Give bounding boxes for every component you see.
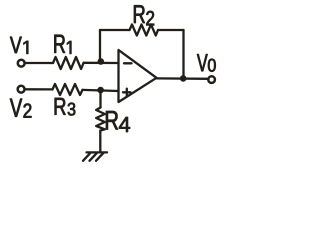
ground hatch 1: [83, 153, 91, 161]
wire top rail right segment: [158, 29, 184, 31]
wire junction up to top rail: [99, 30, 101, 62]
wire R3 to non-inverting input: [83, 90, 119, 91]
label R2 glyph R: [134, 5, 145, 23]
label R3 glyph R: [55, 98, 66, 115]
node V0 output terminal: [208, 76, 215, 83]
wire R4 to ground: [99, 131, 101, 153]
resistor R1: [53, 57, 84, 69]
op-amp minus sign (inverting input): [124, 62, 132, 64]
resistor R4: [96, 108, 105, 131]
label R2 glyph 2: [146, 11, 154, 25]
op-amp plus sign (non-inverting input): [123, 91, 131, 93]
label R4 glyph R: [106, 111, 118, 130]
resistor R2: [130, 25, 159, 36]
node junction non-inverting input: [97, 87, 104, 94]
label V2 glyph 2: [24, 104, 32, 118]
wire op-amp output to V0: [157, 77, 208, 80]
label V1 glyph V: [10, 37, 22, 53]
label V0 glyph 0: [208, 59, 216, 72]
label R3 glyph 3: [68, 103, 76, 116]
node V2 input terminal: [18, 86, 25, 93]
resistor R3: [53, 84, 83, 95]
label R1 glyph R: [54, 35, 65, 53]
ground hatch 2: [90, 153, 98, 161]
ground hatch 3: [96, 153, 104, 161]
wire V1 terminal to R1: [25, 62, 53, 64]
label V0 glyph V: [197, 54, 208, 71]
node junction output: [180, 75, 187, 82]
label R1 glyph 1: [67, 41, 71, 54]
label R4 glyph 4: [119, 117, 130, 132]
wire V2 terminal to R3: [25, 88, 52, 90]
wire feedback down to output node: [182, 30, 184, 78]
node V1 input terminal: [18, 60, 25, 67]
label V1 glyph 1: [23, 41, 28, 54]
wire top rail left segment: [100, 29, 130, 31]
ground bar: [87, 151, 108, 153]
label V2 glyph V: [10, 99, 22, 117]
op-amp U1 triangle: [119, 50, 157, 102]
wire R1 to inverting input: [84, 62, 119, 65]
node junction inverting input: [98, 58, 105, 65]
wire junction down to R4: [99, 90, 101, 107]
